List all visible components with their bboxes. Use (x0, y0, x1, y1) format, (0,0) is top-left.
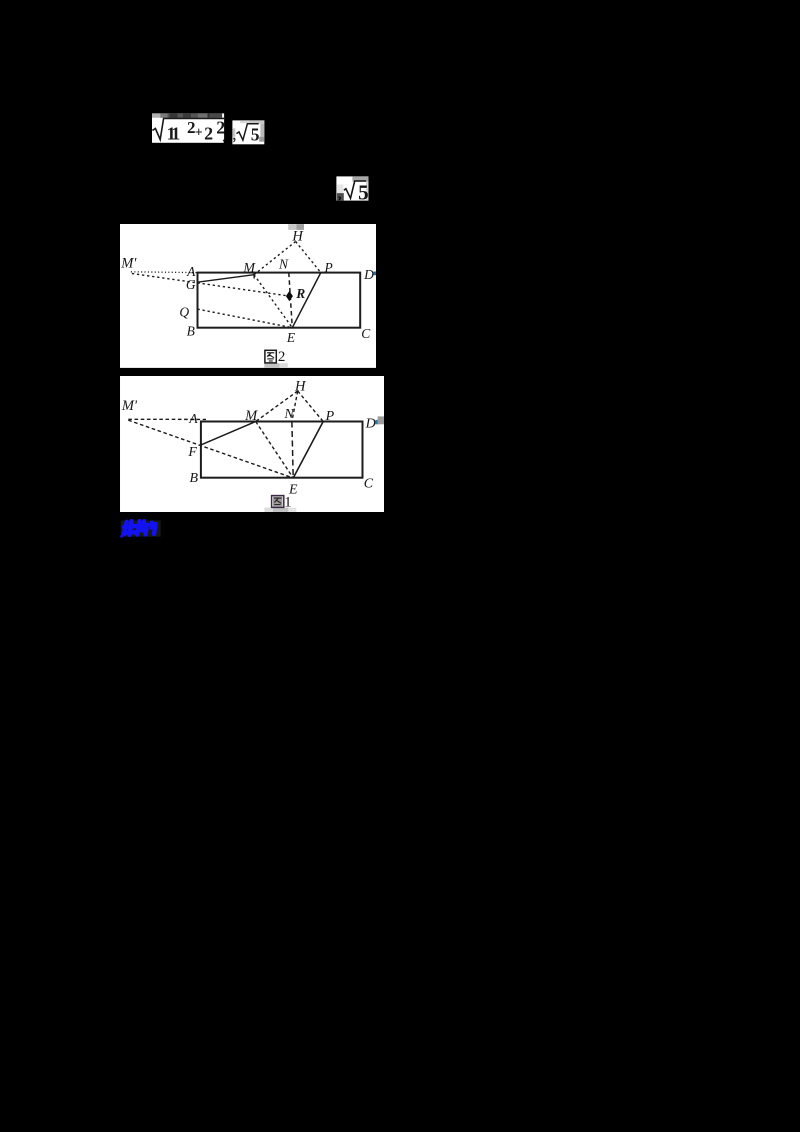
dashed line M to E (255, 421, 292, 477)
figure 2 panel (120, 224, 376, 368)
tick at M (253, 272, 255, 278)
blue dot right of D (373, 271, 376, 275)
svg-text:2: 2 (204, 123, 213, 143)
dashed line H to P (295, 241, 320, 272)
svg-text:B: B (186, 323, 194, 338)
caption grey strips (264, 507, 273, 512)
svg-text:Q: Q (179, 304, 189, 319)
sqrt 5 (343, 181, 365, 198)
svg-text:M: M (242, 261, 256, 276)
dashed line M' to A (128, 418, 206, 420)
svg-text:,: , (222, 129, 225, 143)
blue answer blob (120, 519, 162, 538)
rectangle ABCD (197, 272, 360, 327)
svg-text:P: P (323, 260, 332, 275)
svg-text:2: 2 (278, 349, 286, 365)
dashed line M' through F to E (128, 420, 293, 478)
grey artifact strip on top (152, 113, 160, 117)
svg-text:P: P (324, 408, 334, 423)
svg-text:1: 1 (284, 494, 292, 510)
dashed line H to M (254, 241, 296, 274)
dashed line Q to E (197, 309, 292, 328)
formula box 3: comma + sqrt(5) lower (336, 176, 369, 201)
dashed vertical N to E (291, 421, 292, 477)
svg-text:M: M (244, 407, 258, 423)
dashed line H to M (255, 390, 297, 420)
dashed line H to P (297, 390, 322, 420)
radical sign (152, 118, 224, 139)
grey patch above H (288, 224, 296, 230)
svg-text:H: H (294, 378, 307, 394)
svg-text:H: H (291, 228, 304, 244)
comma (233, 137, 235, 142)
rectangle ABCD (200, 421, 362, 477)
svg-text:D: D (364, 416, 375, 431)
svg-text:C: C (361, 326, 371, 341)
diamond point R (286, 291, 293, 301)
svg-text:5: 5 (358, 180, 369, 201)
svg-text:5: 5 (250, 124, 259, 144)
dashed line M to E (254, 274, 292, 327)
solid line P to E (292, 272, 320, 327)
svg-text:M': M' (120, 397, 137, 413)
formula box 1: sqrt(11^2+2^2) (152, 113, 225, 144)
dashed line H to N (291, 390, 297, 420)
dashed line M' through G to R (132, 273, 289, 296)
dashed vertical N to E (288, 272, 291, 327)
blue dot right of D (375, 419, 378, 423)
svg-text:C: C (363, 476, 373, 491)
svg-text:F: F (187, 445, 197, 460)
grey patch right of D (377, 416, 384, 424)
svg-text:D: D (363, 267, 374, 282)
sqrt 5 (236, 123, 258, 139)
solid line F to M (200, 421, 255, 444)
figure 1 panel (120, 376, 385, 512)
formula box 2: comma + sqrt(5) (232, 120, 265, 145)
dotted line M' to A (131, 271, 198, 274)
svg-text:N: N (278, 256, 289, 271)
svg-text:M': M' (120, 255, 137, 271)
svg-text:A: A (188, 411, 198, 426)
svg-text:E: E (286, 330, 296, 345)
svg-text:+: + (195, 125, 203, 140)
caption grey strip (264, 363, 279, 368)
caption glyph tu (CJK) (265, 350, 276, 363)
svg-text:B: B (189, 471, 198, 486)
svg-text:G: G (186, 277, 196, 292)
svg-text:11: 11 (167, 123, 181, 143)
svg-text:N: N (283, 406, 294, 421)
solid line P to E (293, 421, 323, 477)
solid line G to M (197, 274, 253, 281)
caption glyph tu (CJK) (271, 495, 283, 507)
svg-text:R: R (295, 286, 305, 301)
